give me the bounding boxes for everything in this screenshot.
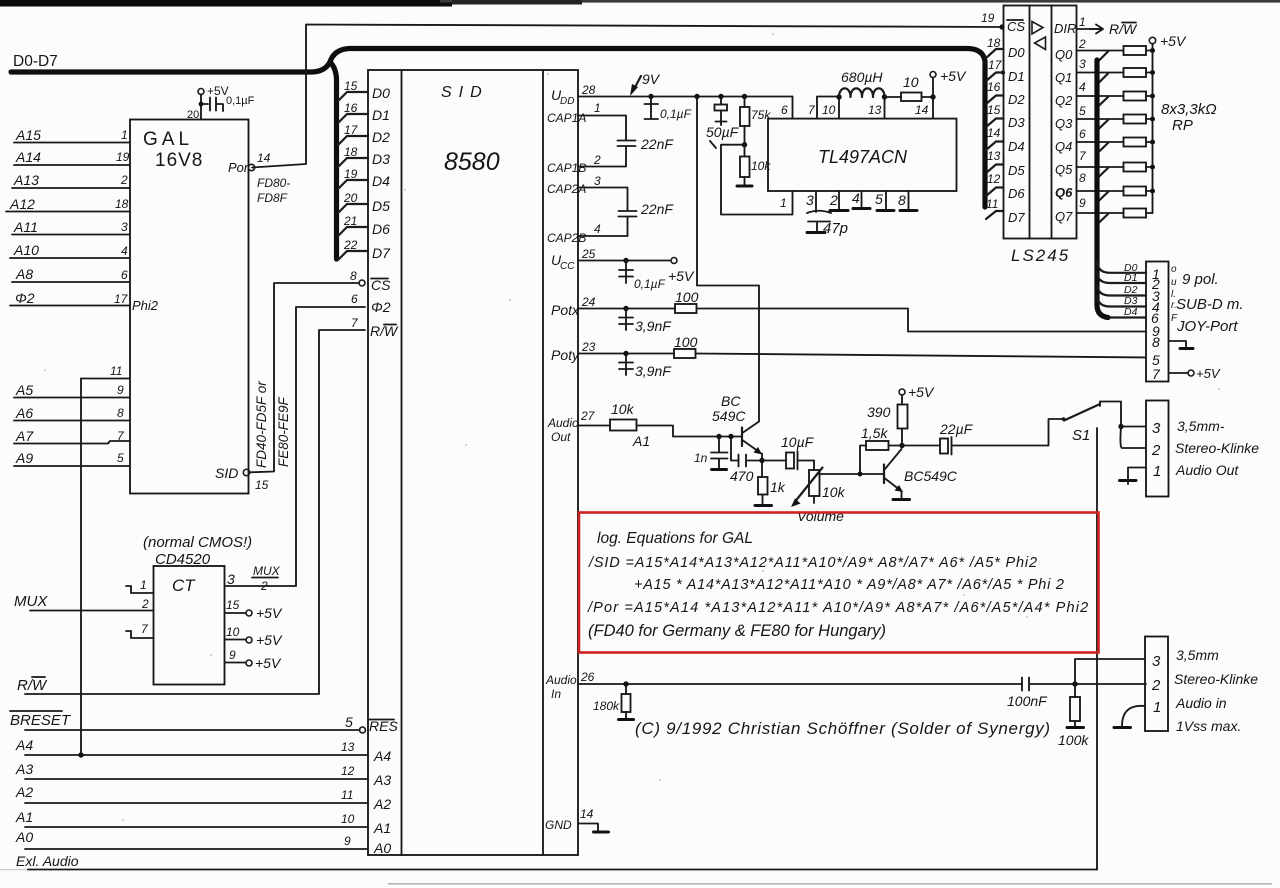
LS245 left labels bbox=[1007, 19, 1025, 225]
capacitor 470 base-emitter bbox=[731, 437, 762, 467]
CT pin 7 clock input bbox=[126, 631, 154, 638]
svg-text:D0: D0 bbox=[372, 85, 390, 101]
SID data pin numbers 15-22 bbox=[343, 79, 359, 252]
svg-text:+5V: +5V bbox=[908, 384, 935, 400]
svg-text:(FD40 for Germany & FE80 for H: (FD40 for Germany & FE80 for Hungary) bbox=[588, 622, 886, 640]
svg-text:9: 9 bbox=[1079, 196, 1086, 210]
svg-text:6: 6 bbox=[781, 103, 788, 117]
svg-text:3,5mm-: 3,5mm- bbox=[1177, 418, 1225, 434]
svg-text:11: 11 bbox=[110, 364, 122, 378]
svg-text:9: 9 bbox=[117, 383, 124, 397]
GAL left pin labels bbox=[9, 127, 41, 306]
svg-text:9: 9 bbox=[229, 648, 236, 662]
svg-text:A1: A1 bbox=[373, 820, 391, 836]
svg-text:23: 23 bbox=[581, 340, 596, 354]
svg-text:A15: A15 bbox=[15, 127, 41, 143]
svg-text:+5V: +5V bbox=[256, 632, 283, 648]
svg-text:FD80-: FD80- bbox=[257, 176, 290, 190]
svg-text:13: 13 bbox=[341, 740, 355, 754]
+5V output bbox=[932, 78, 934, 98]
svg-text:D4: D4 bbox=[372, 173, 390, 189]
LS245 right pin numbers bbox=[1078, 15, 1087, 210]
svg-text:BC: BC bbox=[721, 393, 741, 409]
wire: Ext Audio bottom run bbox=[28, 869, 1097, 871]
GAL +5V supply pin 20 bbox=[198, 89, 204, 95]
svg-text:16V8: 16V8 bbox=[155, 150, 203, 171]
capacitor 3,9nF at Poty bbox=[619, 354, 633, 376]
svg-text:A2: A2 bbox=[15, 784, 33, 800]
svg-text:2: 2 bbox=[829, 192, 838, 208]
svg-text:2: 2 bbox=[141, 597, 149, 611]
svg-text:Audio in: Audio in bbox=[1175, 695, 1227, 711]
LS245 data stub wires from bus bbox=[986, 49, 1004, 219]
wire: 9V to transistor collector feed bbox=[694, 94, 699, 99]
TL497 pin 3 with 47p bbox=[815, 191, 817, 212]
wire: Audio Out pin27 bbox=[578, 425, 610, 427]
svg-text:A1: A1 bbox=[632, 433, 650, 449]
svg-text:o: o bbox=[1171, 264, 1177, 275]
svg-text:4: 4 bbox=[1079, 80, 1086, 94]
svg-text:14: 14 bbox=[987, 126, 1001, 140]
svg-text:17: 17 bbox=[114, 292, 129, 306]
svg-text:SID: SID bbox=[215, 465, 238, 481]
svg-text:14: 14 bbox=[580, 807, 594, 821]
switch arm bbox=[1064, 404, 1100, 421]
TL497 pin 8 ground bbox=[908, 191, 910, 209]
svg-text:D3: D3 bbox=[372, 151, 390, 167]
svg-text:D5: D5 bbox=[372, 198, 390, 214]
capacitor 3,9nF at Potx bbox=[619, 309, 633, 331]
svg-text:TL497ACN: TL497ACN bbox=[818, 147, 908, 167]
wire: Poty pin23 bbox=[578, 353, 674, 355]
resistor 100 (Potx) bbox=[675, 304, 697, 313]
svg-text:Audio: Audio bbox=[545, 673, 577, 687]
wire: GAL SID output to SID CS pin bbox=[250, 283, 359, 472]
svg-text:D7: D7 bbox=[1008, 210, 1025, 225]
collector node bbox=[899, 443, 904, 448]
svg-text:470: 470 bbox=[730, 468, 754, 484]
svg-text:Exl. Audio: Exl. Audio bbox=[16, 853, 79, 869]
audio-in pin1 ground bbox=[1122, 706, 1145, 726]
svg-text:0,1µF: 0,1µF bbox=[634, 277, 666, 291]
TL497 pin 10 bbox=[838, 97, 840, 119]
GAL left pin wires A15..Phi2 bbox=[6, 143, 130, 306]
joyport pin7 +5V bbox=[1169, 372, 1189, 374]
svg-text:+5V: +5V bbox=[1160, 33, 1187, 49]
svg-text:/SID =A15*A14*A13*A12*A11*A10*: /SID =A15*A14*A13*A12*A11*A10*/A9* A8*/A… bbox=[588, 555, 1038, 571]
svg-text:A0: A0 bbox=[373, 840, 391, 856]
svg-text:18: 18 bbox=[344, 145, 358, 159]
svg-text:D0-D7: D0-D7 bbox=[13, 53, 58, 70]
svg-text:CAP1B: CAP1B bbox=[547, 161, 586, 175]
svg-text:3,9nF: 3,9nF bbox=[635, 363, 672, 379]
svg-text:A11: A11 bbox=[13, 219, 38, 235]
GAL output Por pin 14 bbox=[248, 164, 254, 170]
svg-text:Por: Por bbox=[228, 160, 249, 175]
svg-text:8: 8 bbox=[117, 406, 124, 420]
wire: A2 row bbox=[25, 802, 368, 804]
svg-text:14: 14 bbox=[915, 103, 929, 117]
capacitor 10uF coupling bbox=[762, 460, 786, 462]
svg-text:Q3: Q3 bbox=[1055, 116, 1073, 131]
wire: Ucc pin25 to +5V bbox=[578, 260, 671, 262]
svg-text:10: 10 bbox=[903, 74, 919, 90]
svg-text:FE80-FE9F: FE80-FE9F bbox=[276, 396, 291, 467]
joyport SUB-D connector box bbox=[1146, 262, 1169, 382]
svg-text:D1: D1 bbox=[372, 107, 390, 123]
svg-text:+5V: +5V bbox=[940, 68, 967, 84]
svg-text:8: 8 bbox=[1152, 334, 1160, 350]
DIR pin1 R/W arrow bbox=[1077, 28, 1101, 30]
svg-text:A0: A0 bbox=[15, 829, 33, 845]
svg-text:1: 1 bbox=[1153, 463, 1161, 480]
svg-text:22nF: 22nF bbox=[640, 136, 674, 152]
svg-text:Potx: Potx bbox=[551, 302, 580, 318]
svg-text:Audio: Audio bbox=[547, 416, 579, 430]
SID 8580 chip box bbox=[368, 70, 578, 855]
svg-text:D2: D2 bbox=[1008, 92, 1025, 107]
CD4520 counter CT box bbox=[154, 566, 225, 685]
svg-text:3,5mm: 3,5mm bbox=[1176, 647, 1219, 663]
svg-text:Out: Out bbox=[551, 430, 571, 444]
svg-text:Audio Out: Audio Out bbox=[1175, 462, 1239, 478]
GAL 16V8 U-GAL box bbox=[130, 120, 249, 494]
svg-text:Q6: Q6 bbox=[1055, 185, 1073, 200]
svg-text:21: 21 bbox=[343, 214, 357, 228]
9V supply arrow bbox=[634, 76, 641, 89]
audio amp: base node junctions bbox=[716, 434, 721, 439]
svg-text:28: 28 bbox=[581, 83, 596, 97]
GAL output SID pin 15 bbox=[243, 469, 249, 475]
joyport pin8 ground bbox=[1169, 341, 1187, 347]
svg-text:10: 10 bbox=[822, 103, 836, 117]
wire: A3 row bbox=[25, 778, 368, 780]
wire: Por to LS245 CS pin 19 bbox=[252, 25, 1001, 168]
svg-text:180k: 180k bbox=[593, 699, 620, 713]
svg-text:JOY-Port: JOY-Port bbox=[1176, 318, 1238, 335]
audio out pin1 ground bbox=[1128, 468, 1146, 480]
svg-text:1k: 1k bbox=[770, 479, 786, 495]
svg-text:A4: A4 bbox=[373, 748, 391, 764]
ground at 10k bbox=[737, 185, 752, 188]
svg-text:D2: D2 bbox=[372, 129, 390, 145]
svg-text:4: 4 bbox=[121, 244, 128, 258]
svg-text:4: 4 bbox=[852, 190, 860, 206]
svg-text:13: 13 bbox=[987, 149, 1001, 163]
svg-text:16: 16 bbox=[987, 80, 1001, 94]
svg-text:3: 3 bbox=[227, 571, 235, 587]
svg-text:CC: CC bbox=[560, 261, 575, 272]
svg-text:390: 390 bbox=[867, 404, 891, 420]
svg-text:1: 1 bbox=[594, 101, 601, 115]
svg-text:CAP2A: CAP2A bbox=[547, 182, 586, 196]
svg-text:Stereo-Klinke: Stereo-Klinke bbox=[1175, 440, 1259, 456]
LS245 direction triangles bbox=[1032, 22, 1043, 35]
wire: Ext Audio riser to S1 bbox=[1096, 428, 1098, 870]
svg-text:D6: D6 bbox=[372, 221, 390, 237]
svg-text:2: 2 bbox=[1151, 442, 1161, 459]
svg-text:1n: 1n bbox=[694, 451, 708, 465]
svg-text:/Por =A15*A14 *A13*A12*A11* A1: /Por =A15*A14 *A13*A12*A11* A10*/A9* A8*… bbox=[587, 600, 1089, 616]
svg-text:27: 27 bbox=[580, 409, 596, 423]
svg-text:S1: S1 bbox=[1072, 427, 1090, 444]
svg-text:Q2: Q2 bbox=[1055, 93, 1073, 108]
+5V pull-up rail bbox=[1152, 44, 1154, 213]
svg-text:DIR: DIR bbox=[1054, 21, 1076, 36]
svg-text:A5: A5 bbox=[15, 382, 33, 398]
svg-text:100k: 100k bbox=[1058, 732, 1089, 748]
red box logic equations bbox=[579, 513, 1099, 653]
svg-text:(normal CMOS!): (normal CMOS!) bbox=[143, 534, 252, 551]
svg-text:A9: A9 bbox=[15, 450, 33, 466]
Q outputs to joystick bus diagonals bbox=[1098, 52, 1109, 225]
svg-text:Q0: Q0 bbox=[1055, 47, 1073, 62]
CT pin 10 to +5V bbox=[225, 639, 247, 641]
svg-text:6: 6 bbox=[351, 292, 358, 306]
svg-text:19: 19 bbox=[981, 11, 995, 25]
svg-text:A13: A13 bbox=[13, 172, 39, 188]
LS245 left pin numbers bbox=[981, 11, 1003, 211]
CT pin 1 clock input bbox=[126, 586, 154, 593]
svg-text:7: 7 bbox=[1152, 366, 1161, 382]
SID data pin stub wires D0-D7 bbox=[338, 92, 368, 260]
SID inner column lines bbox=[401, 70, 403, 855]
capacitor 0,1uF at GAL pin 20 bbox=[201, 98, 223, 112]
svg-text:Volume: Volume bbox=[797, 508, 844, 524]
capacitor 0,1uF at Ucc bbox=[623, 258, 628, 263]
wire: D0-D7 thick bus branch down to SID bbox=[330, 62, 337, 259]
svg-text:10: 10 bbox=[226, 625, 240, 639]
wire: GAL pin11 to A4 row vertical bbox=[80, 379, 82, 756]
svg-text:In: In bbox=[551, 687, 561, 701]
svg-text:14: 14 bbox=[257, 151, 271, 165]
svg-text:9V: 9V bbox=[642, 71, 661, 87]
svg-text:D1: D1 bbox=[1008, 69, 1025, 84]
svg-text:(C) 9/1992 Christian Schöffne: (C) 9/1992 Christian Schöffner (Solder o… bbox=[635, 719, 1051, 738]
svg-text:22: 22 bbox=[343, 238, 358, 252]
audio in connector box bbox=[1145, 637, 1168, 732]
svg-text:20: 20 bbox=[187, 109, 199, 121]
svg-text:CT: CT bbox=[172, 576, 196, 595]
svg-text:D4: D4 bbox=[1124, 306, 1138, 318]
wire: MUX row to CD4520 pin 2 bbox=[30, 610, 154, 612]
svg-text:SID: SID bbox=[441, 84, 489, 101]
resistor 10 bbox=[901, 93, 922, 102]
joyport side labels bbox=[1171, 264, 1178, 324]
resistor 75k bbox=[742, 94, 747, 99]
SID bottom-left pin labels bbox=[369, 718, 398, 856]
wire: TL497 pin1 feedback loop bbox=[721, 145, 793, 215]
resistor 100k to ground bbox=[1072, 681, 1077, 686]
svg-text:2: 2 bbox=[1078, 37, 1086, 51]
svg-text:GND: GND bbox=[545, 818, 572, 832]
wire: Potx to joy pin9 bbox=[697, 309, 1147, 332]
svg-text:3,9nF: 3,9nF bbox=[635, 318, 672, 334]
wire: A0 row bbox=[25, 848, 368, 850]
svg-text:A3: A3 bbox=[15, 761, 33, 777]
capacitor 22uF output bbox=[902, 445, 940, 447]
svg-text:8x3,3kΩ: 8x3,3kΩ bbox=[1161, 101, 1217, 118]
wire: Poty to joy pin5 bbox=[696, 354, 1147, 358]
svg-text:100nF: 100nF bbox=[1007, 693, 1048, 709]
svg-text:4: 4 bbox=[594, 222, 601, 236]
svg-text:50µF: 50µF bbox=[706, 124, 740, 140]
SID left pin name labels bbox=[370, 85, 399, 339]
svg-text:+5V: +5V bbox=[256, 605, 283, 621]
svg-text:Q4: Q4 bbox=[1055, 139, 1072, 154]
svg-text:A14: A14 bbox=[15, 149, 41, 165]
wire audio-in pin3 to junction bbox=[1075, 659, 1145, 684]
svg-text:24: 24 bbox=[581, 295, 596, 309]
svg-text:18: 18 bbox=[115, 197, 129, 211]
resistor 1k to ground bbox=[761, 461, 763, 478]
scan artifact bottom faint line bbox=[388, 883, 1272, 885]
resistor 390 to +5V bbox=[901, 429, 903, 446]
svg-text:15: 15 bbox=[344, 79, 358, 93]
svg-text:1: 1 bbox=[140, 578, 147, 592]
svg-text:8: 8 bbox=[898, 192, 906, 208]
svg-text:D0: D0 bbox=[1008, 45, 1025, 60]
svg-text:12: 12 bbox=[987, 172, 1001, 186]
svg-text:+5V: +5V bbox=[668, 268, 695, 284]
svg-text:5: 5 bbox=[117, 451, 124, 465]
svg-text:16: 16 bbox=[344, 101, 358, 115]
wiper output to Q2 base bbox=[820, 473, 885, 475]
svg-text:3: 3 bbox=[806, 192, 814, 208]
svg-text:10k: 10k bbox=[611, 401, 635, 417]
LS245 bus transceiver box bbox=[1004, 6, 1077, 239]
svg-text:10: 10 bbox=[341, 812, 355, 826]
svg-text:3: 3 bbox=[594, 174, 601, 188]
svg-text:15: 15 bbox=[226, 598, 240, 612]
svg-text:+5V: +5V bbox=[255, 655, 282, 671]
TL497 pin 5 ground bbox=[885, 191, 887, 209]
svg-text:3: 3 bbox=[1079, 57, 1086, 71]
svg-text:log. Equations for GAL: log. Equations for GAL bbox=[597, 530, 753, 547]
svg-text:RP: RP bbox=[1172, 117, 1193, 134]
svg-text:FD8F: FD8F bbox=[257, 191, 288, 205]
svg-text:+A15 * A14*A13*A12*A11*A10 * A: +A15 * A14*A13*A12*A11*A10 * A9*/A8* A7*… bbox=[634, 577, 1065, 593]
resistor pack RP 8x3,3k bbox=[1124, 46, 1147, 218]
transistor Q1 BC549C bbox=[741, 428, 743, 447]
svg-text:47p: 47p bbox=[823, 220, 848, 237]
capacitor 1n to ground bbox=[711, 437, 728, 469]
svg-text:CS: CS bbox=[1007, 19, 1025, 34]
wire: A1 row bbox=[25, 826, 368, 828]
TL497ACN regulator box bbox=[768, 119, 957, 191]
svg-text:25: 25 bbox=[581, 247, 596, 261]
wire: BRESET row to SID RES pin 5 bbox=[25, 729, 360, 731]
svg-text:5: 5 bbox=[875, 191, 883, 207]
svg-text:1: 1 bbox=[780, 196, 787, 210]
svg-text:CAP1A: CAP1A bbox=[547, 111, 586, 125]
svg-text:1: 1 bbox=[1153, 699, 1161, 716]
svg-text:D3: D3 bbox=[1008, 115, 1025, 130]
svg-text:1,5k: 1,5k bbox=[861, 425, 888, 441]
TL497 pin 13 bbox=[884, 97, 886, 119]
svg-text:DD: DD bbox=[560, 96, 574, 107]
svg-text:u: u bbox=[1171, 277, 1177, 288]
svg-text:A12: A12 bbox=[9, 196, 35, 212]
TL497 pin 4 ground bbox=[861, 191, 863, 207]
svg-text:0,1µF: 0,1µF bbox=[226, 95, 255, 107]
wire: UDD pin28 9V rail bbox=[578, 96, 793, 98]
overline CS and R/W bbox=[371, 278, 388, 280]
svg-text:549C: 549C bbox=[712, 408, 746, 424]
svg-text:CD4520: CD4520 bbox=[155, 551, 211, 568]
wire: SID R/W pin to bottom R/W wire bbox=[25, 330, 365, 694]
svg-text:D7: D7 bbox=[372, 245, 391, 261]
svg-text:12: 12 bbox=[341, 764, 355, 778]
resistor 180k to ground bbox=[623, 681, 628, 686]
audio out connector box bbox=[1146, 401, 1169, 497]
svg-text:5: 5 bbox=[345, 714, 353, 730]
SID right pin labels bbox=[545, 87, 586, 832]
svg-text:9 pol.: 9 pol. bbox=[1182, 271, 1219, 288]
wire to audio out pin2 bbox=[1120, 427, 1146, 449]
svg-text:8580: 8580 bbox=[444, 148, 500, 176]
svg-text:10k: 10k bbox=[822, 484, 846, 500]
svg-text:D4: D4 bbox=[1008, 139, 1025, 154]
SID right pin numbers bbox=[580, 83, 601, 821]
svg-text:CAP2B: CAP2B bbox=[547, 231, 586, 245]
svg-text:17: 17 bbox=[344, 123, 359, 137]
svg-text:SUB-D m.: SUB-D m. bbox=[1176, 296, 1244, 313]
svg-text:MUX: MUX bbox=[14, 593, 48, 610]
svg-text:A6: A6 bbox=[15, 405, 33, 421]
svg-text:Q5: Q5 bbox=[1055, 162, 1073, 177]
svg-text:17: 17 bbox=[988, 58, 1003, 72]
svg-text:A2: A2 bbox=[373, 796, 391, 812]
svg-text:6: 6 bbox=[121, 268, 128, 282]
Q0-Q7 wires to resistor pack bbox=[1077, 51, 1124, 214]
svg-text:26: 26 bbox=[580, 670, 595, 684]
svg-text:19: 19 bbox=[116, 150, 130, 164]
CT pin 9 to +5V bbox=[225, 662, 247, 664]
svg-text:10µF: 10µF bbox=[781, 434, 815, 450]
svg-text:FD40-FD5F or: FD40-FD5F or bbox=[254, 381, 269, 468]
GAL lower pins 11, A5-A9 bbox=[81, 378, 130, 380]
wire: Potx pin24 bbox=[578, 308, 675, 310]
svg-text:9: 9 bbox=[344, 834, 351, 848]
svg-text:GAL: GAL bbox=[143, 129, 193, 150]
joystick data bus thick vertical bbox=[1097, 60, 1108, 318]
svg-text:100: 100 bbox=[675, 289, 699, 305]
svg-text:Φ2: Φ2 bbox=[371, 299, 391, 315]
svg-text:11: 11 bbox=[986, 197, 998, 211]
svg-text:0,1µF: 0,1µF bbox=[660, 107, 692, 121]
svg-text:15: 15 bbox=[255, 478, 269, 492]
capacitor 50uF bbox=[718, 94, 723, 99]
svg-text:3: 3 bbox=[1152, 420, 1161, 437]
svg-text:A3: A3 bbox=[373, 772, 391, 788]
wire: D0-D7 thick bus horizontal left bbox=[11, 62, 330, 72]
wire: D0-D7 thick bus top run to LS245 bbox=[330, 49, 985, 208]
TL497 pin 14 bbox=[932, 97, 934, 119]
svg-text:LS245: LS245 bbox=[1011, 246, 1070, 265]
potentiometer Volume 10k bbox=[813, 461, 815, 471]
svg-text:100: 100 bbox=[674, 334, 698, 350]
svg-text:15: 15 bbox=[987, 103, 1001, 117]
TL497 pin 6 bbox=[792, 97, 794, 119]
GAL left pin numbers bbox=[114, 128, 130, 306]
svg-text:13: 13 bbox=[868, 103, 882, 117]
capacitor 100nF audio in bbox=[1022, 678, 1146, 691]
svg-text:11: 11 bbox=[341, 788, 353, 802]
wire: SID Phi2 pin to CD4520 pin3 (MUX/2 net) bbox=[225, 307, 365, 586]
svg-text:1Vss max.: 1Vss max. bbox=[1176, 718, 1241, 734]
TL497 pin 7 bbox=[817, 97, 838, 119]
